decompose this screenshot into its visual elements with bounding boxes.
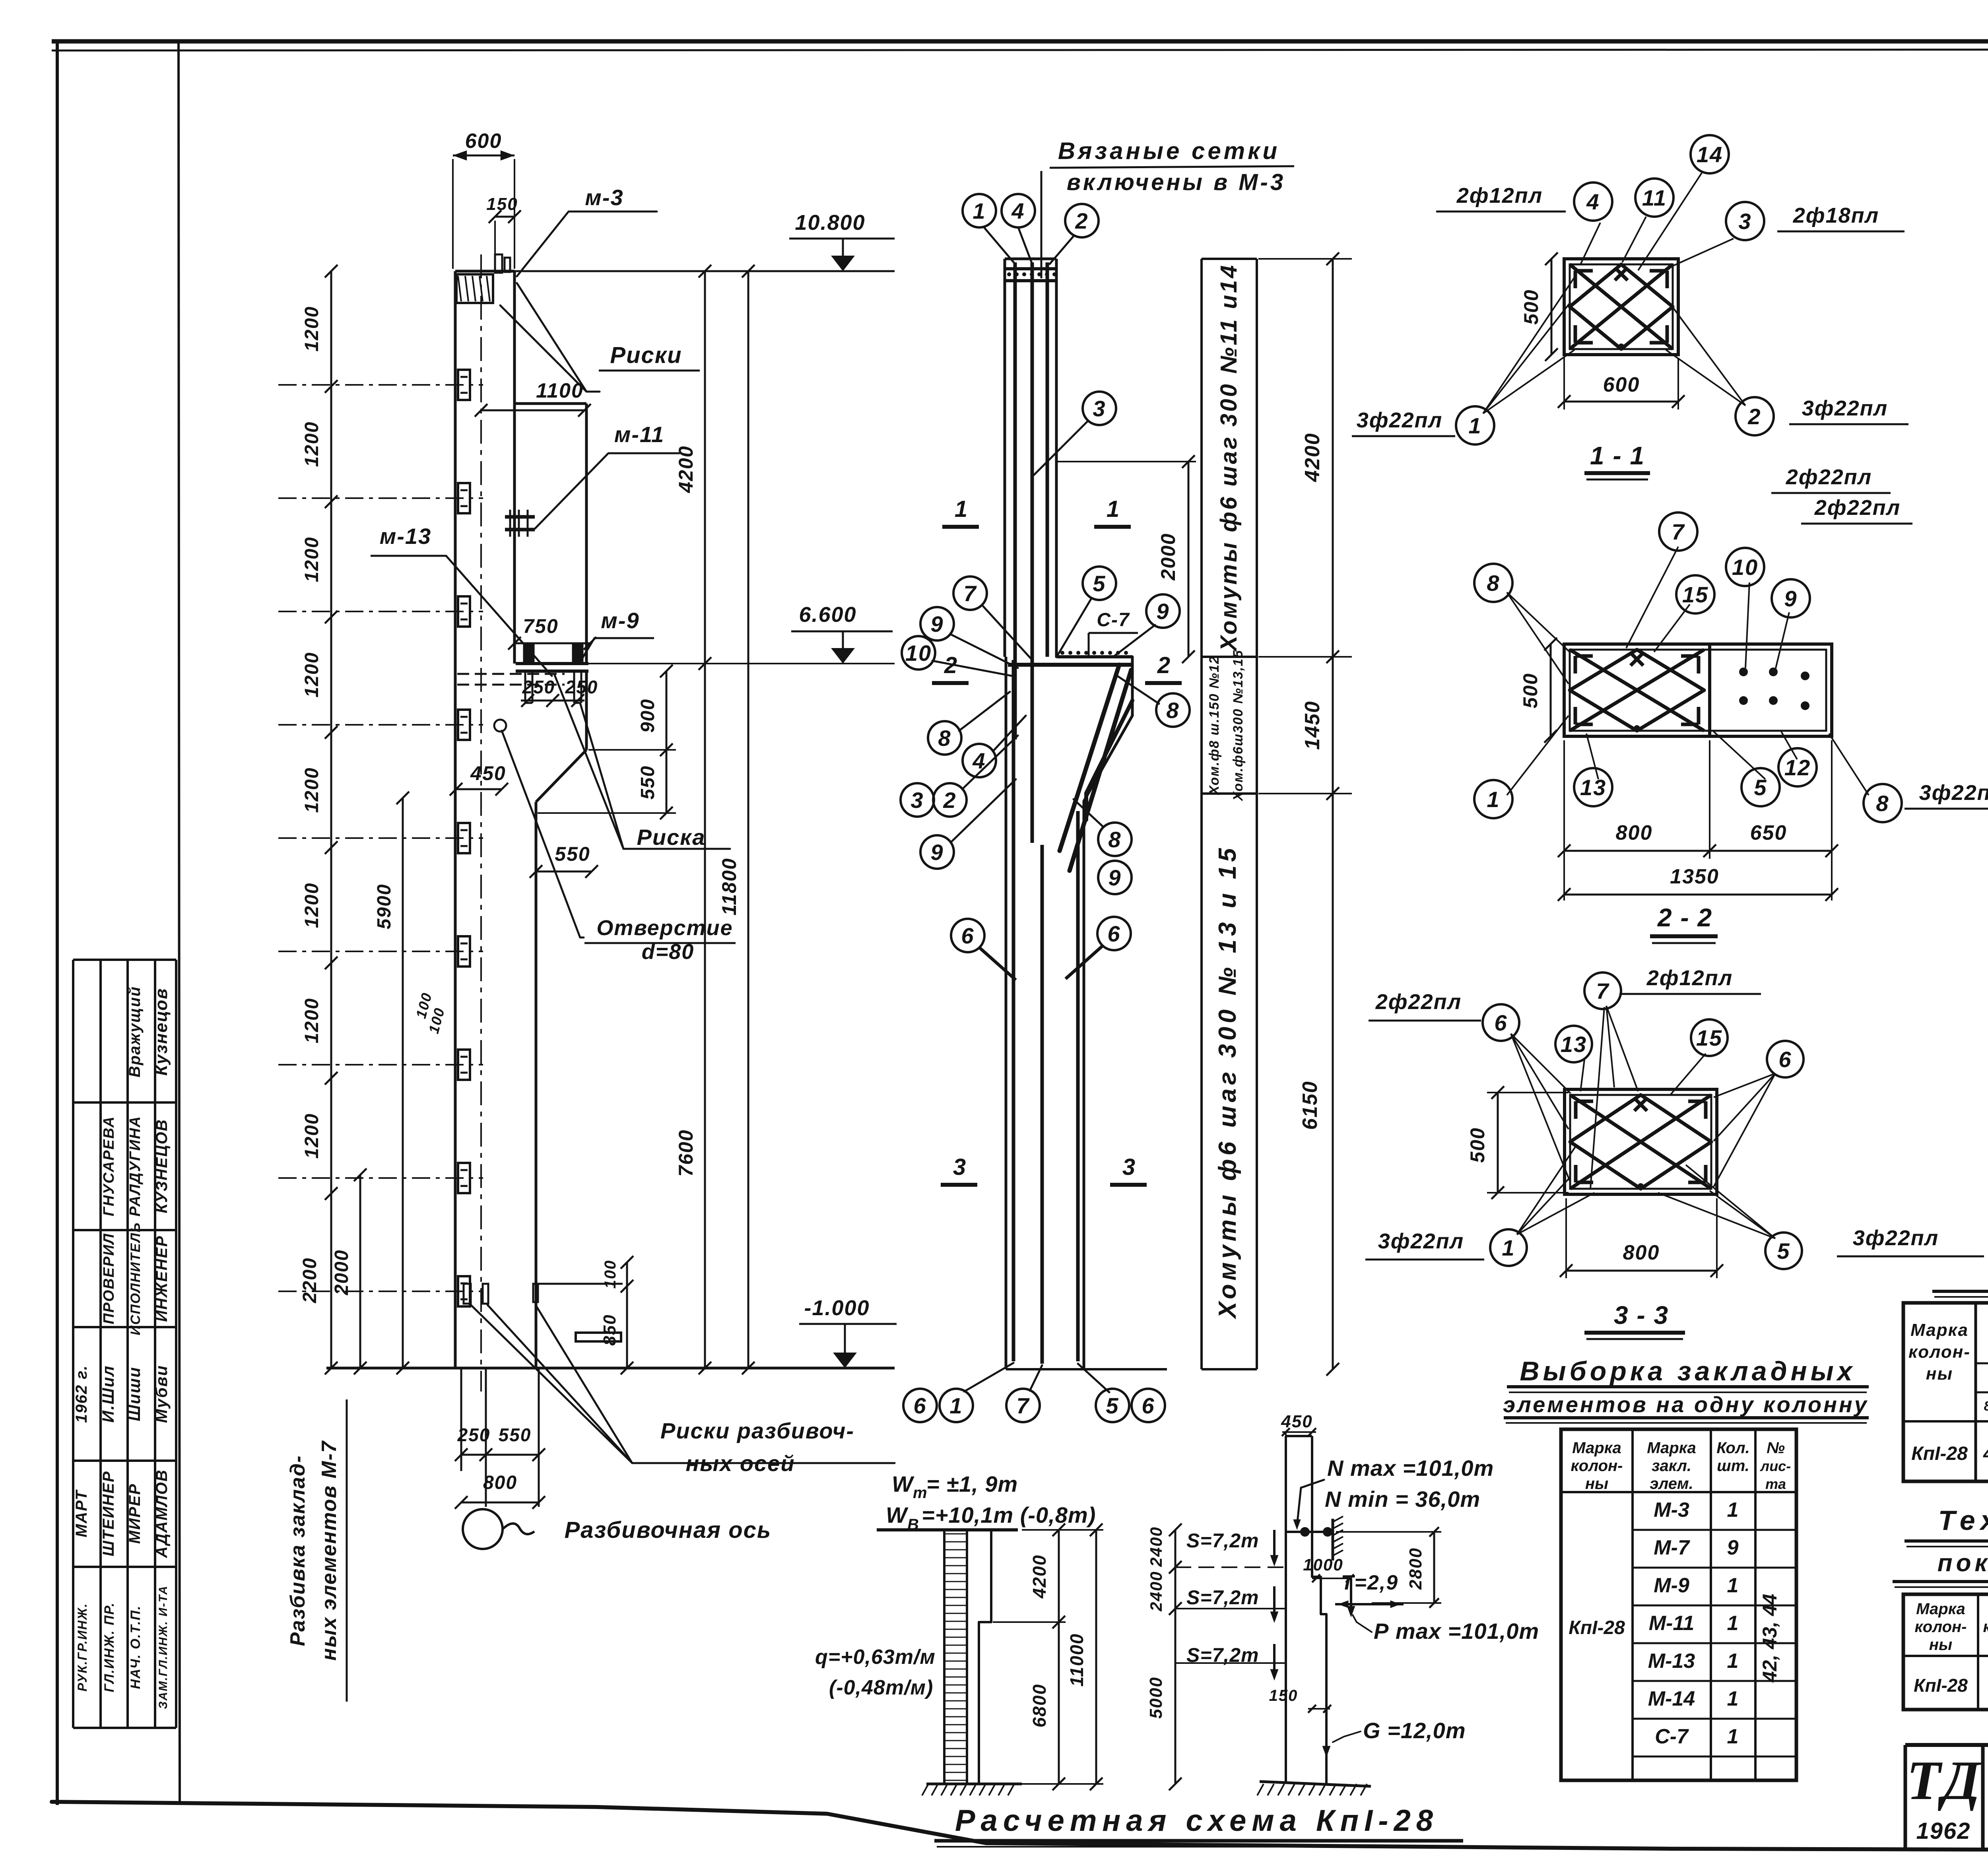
svg-text:Мубви: Мубви bbox=[152, 1365, 171, 1423]
svg-text:Кол.: Кол. bbox=[1716, 1439, 1750, 1457]
dim 2000 middle bbox=[1058, 461, 1196, 462]
razbivochnaya axis circle bbox=[463, 1509, 503, 1549]
svg-text:Риски разбивоч-: Риски разбивоч- bbox=[660, 1418, 854, 1443]
section 3-3 dim 500 bbox=[1497, 1093, 1499, 1193]
dimension 5900 bbox=[402, 798, 404, 1368]
svg-text:№: № bbox=[1767, 1439, 1785, 1457]
svg-text:1200: 1200 bbox=[301, 421, 322, 467]
svg-text:6: 6 bbox=[913, 1393, 926, 1418]
svg-text:2ф12пл: 2ф12пл bbox=[1456, 184, 1543, 208]
svg-text:М-9: М-9 bbox=[1654, 1574, 1689, 1597]
embeds rows bbox=[1633, 1529, 1796, 1531]
svg-text:7600: 7600 bbox=[675, 1129, 697, 1176]
section 3-3 callouts bbox=[1483, 1004, 1519, 1041]
svg-text:2000: 2000 bbox=[1157, 533, 1179, 580]
svg-text:N min = 36,0т: N min = 36,0т bbox=[1325, 1487, 1480, 1512]
svg-text:800: 800 bbox=[1623, 1241, 1660, 1264]
svg-text:1100: 1100 bbox=[536, 379, 584, 402]
svg-text:900: 900 bbox=[637, 699, 658, 733]
svg-text:1200: 1200 bbox=[301, 883, 322, 928]
svg-text:колон-: колон- bbox=[1571, 1457, 1623, 1475]
TD logo box bbox=[1904, 1745, 1907, 1849]
longitudinal bars upper bbox=[1013, 262, 1017, 739]
svg-text:Хомуты ф6 шаг 300 №11 и14: Хомуты ф6 шаг 300 №11 и14 bbox=[1216, 263, 1242, 652]
mid scheme ground bbox=[1260, 1782, 1371, 1786]
left scheme ground bottom bbox=[926, 1783, 1022, 1786]
svg-text:3: 3 bbox=[953, 1154, 967, 1180]
svg-text:7: 7 bbox=[1596, 978, 1609, 1003]
svg-text:РУК.ГР.ИНЖ.: РУК.ГР.ИНЖ. bbox=[75, 1603, 89, 1692]
section 3-3 dim 800 bbox=[1565, 1198, 1567, 1278]
svg-text:500: 500 bbox=[1519, 673, 1541, 708]
svg-text:4: 4 bbox=[1011, 198, 1025, 223]
svg-text:8: 8 bbox=[1876, 791, 1889, 816]
section 3-3 leaders bbox=[1511, 1034, 1571, 1093]
svg-text:550: 550 bbox=[637, 765, 658, 800]
corbel outline middle bbox=[1056, 657, 1132, 801]
svg-text:5: 5 bbox=[1106, 1393, 1119, 1418]
svg-text:N max =101,0т: N max =101,0т bbox=[1327, 1456, 1494, 1481]
section mark 2 left bbox=[932, 681, 969, 685]
svg-text:м-11: м-11 bbox=[614, 422, 664, 447]
steel table frame bbox=[1903, 1303, 1988, 1481]
svg-text:М-7: М-7 bbox=[1654, 1536, 1690, 1559]
svg-text:800: 800 bbox=[1616, 821, 1653, 844]
svg-text:S=7,2т: S=7,2т bbox=[1186, 1586, 1259, 1609]
steel table main verticals bbox=[1974, 1303, 1977, 1481]
corbel bolts bbox=[524, 644, 534, 664]
svg-text:1: 1 bbox=[1502, 1235, 1515, 1260]
svg-text:(-0,48т/м): (-0,48т/м) bbox=[829, 1676, 933, 1699]
svg-text:показатели на одну колонну: показатели на одну колонну bbox=[1938, 1549, 1988, 1577]
bottom stub verticals bbox=[460, 1368, 462, 1471]
svg-text:= ±1, 9т: = ±1, 9т bbox=[926, 1471, 1018, 1496]
svg-text:3: 3 bbox=[1122, 1154, 1136, 1180]
section mark 3 left bbox=[941, 1183, 977, 1187]
section 2-2 dim 500 bbox=[1550, 644, 1552, 736]
svg-text:1962 г.: 1962 г. bbox=[73, 1365, 90, 1423]
svg-text:2ф22пл: 2ф22пл bbox=[1786, 465, 1872, 489]
svg-text:колон-: колон- bbox=[1908, 1342, 1971, 1362]
svg-text:6.600: 6.600 bbox=[799, 603, 856, 627]
baseline -1.000 bbox=[326, 1367, 895, 1370]
svg-text:150: 150 bbox=[1269, 1687, 1298, 1704]
svg-text:1: 1 bbox=[1727, 1612, 1739, 1635]
section 1-1 callouts bbox=[1574, 182, 1612, 221]
svg-text:2ф12пл: 2ф12пл bbox=[1646, 966, 1733, 990]
svg-text:Риска: Риска bbox=[637, 825, 706, 850]
hole d=80 bbox=[494, 720, 506, 732]
svg-text:1000: 1000 bbox=[1303, 1555, 1343, 1574]
svg-text:8: 8 bbox=[938, 726, 951, 751]
callout 6 pair bbox=[951, 919, 984, 952]
svg-text:4200: 4200 bbox=[675, 445, 697, 493]
svg-text:8пл: 8пл bbox=[1984, 1399, 1988, 1414]
section 1-1 dim 600 bbox=[1563, 358, 1565, 410]
svg-text:750: 750 bbox=[523, 615, 558, 637]
svg-text:1: 1 bbox=[1727, 1725, 1739, 1748]
lower anchor plates bbox=[533, 1283, 623, 1285]
left scheme ground top line bbox=[877, 1528, 1018, 1531]
svg-text:5900: 5900 bbox=[374, 884, 395, 930]
svg-text:1350: 1350 bbox=[1670, 865, 1719, 888]
section mark 1 left bbox=[942, 525, 979, 529]
svg-text:11000: 11000 bbox=[1066, 1633, 1087, 1687]
svg-text:ных элементов М-7: ных элементов М-7 bbox=[318, 1440, 341, 1661]
stirrup zone bar bbox=[1200, 259, 1203, 1369]
svg-text:3ф22пл: 3ф22пл bbox=[1919, 781, 1988, 805]
svg-text:G =12,0т: G =12,0т bbox=[1363, 1718, 1466, 1743]
svg-text:Выборка закладных: Выборка закладных bbox=[1520, 1356, 1856, 1386]
svg-text:6: 6 bbox=[1107, 921, 1120, 946]
svg-text:т: т bbox=[913, 1484, 928, 1502]
svg-text:5: 5 bbox=[1093, 571, 1106, 596]
svg-text:1: 1 bbox=[973, 198, 986, 223]
section 1-1 box bbox=[1564, 259, 1678, 355]
svg-text:3: 3 bbox=[911, 788, 924, 813]
section mark 3 right bbox=[1110, 1183, 1147, 1187]
svg-text:1200: 1200 bbox=[301, 306, 322, 352]
svg-text:-1.000: -1.000 bbox=[804, 1296, 870, 1320]
callout 5 and C-7 bbox=[1083, 567, 1116, 600]
svg-text:ГНУСАРЕВА: ГНУСАРЕВА bbox=[101, 1116, 117, 1217]
svg-text:Марка: Марка bbox=[1910, 1320, 1969, 1340]
column right edge below corbel bbox=[585, 671, 588, 750]
svg-text:МИРЕР: МИРЕР bbox=[126, 1483, 144, 1544]
svg-text:6: 6 bbox=[1142, 1393, 1155, 1418]
svg-text:И.Шил: И.Шил bbox=[99, 1365, 117, 1423]
longitudinal bars lower bbox=[1012, 660, 1015, 1361]
section mark 1 right bbox=[1094, 525, 1131, 529]
svg-text:4200: 4200 bbox=[1029, 1555, 1050, 1599]
label Riska bbox=[555, 675, 623, 849]
svg-text:лис-: лис- bbox=[1760, 1458, 1791, 1474]
callout 9 right bbox=[1146, 594, 1180, 628]
svg-text:КпI-28: КпI-28 bbox=[1569, 1617, 1625, 1638]
support detail top bbox=[1332, 1519, 1334, 1560]
svg-text:2200: 2200 bbox=[299, 1258, 320, 1304]
callout 8 4 left bbox=[928, 721, 961, 755]
svg-text:Вязаные сетки: Вязаные сетки bbox=[1058, 138, 1280, 164]
svg-text:С-7: С-7 bbox=[1097, 609, 1130, 631]
P force bbox=[1350, 1578, 1352, 1613]
svg-text:2: 2 bbox=[1747, 404, 1761, 429]
svg-text:2ф18пл: 2ф18пл bbox=[1793, 204, 1879, 227]
sheet left border bbox=[56, 41, 59, 1805]
svg-text:колон-: колон- bbox=[1983, 1618, 1988, 1636]
svg-text:2400: 2400 bbox=[1147, 1526, 1165, 1567]
svg-text:6800: 6800 bbox=[1029, 1684, 1050, 1727]
svg-text:включены в М-3: включены в М-3 bbox=[1067, 169, 1285, 195]
inner frame line bbox=[179, 41, 180, 1805]
column axis line bbox=[480, 254, 482, 1392]
svg-text:1: 1 bbox=[1727, 1498, 1739, 1522]
svg-text:3: 3 bbox=[1738, 209, 1751, 234]
svg-text:850: 850 bbox=[600, 1314, 619, 1345]
dim 600 top bbox=[453, 155, 514, 157]
G force bbox=[1325, 1706, 1328, 1753]
svg-text:м-3: м-3 bbox=[585, 185, 623, 210]
svg-text:1200: 1200 bbox=[301, 767, 322, 813]
svg-text:Отверстие: Отверстие bbox=[596, 916, 733, 940]
steel table header internals bbox=[1976, 1362, 1988, 1364]
svg-text:2000: 2000 bbox=[331, 1250, 352, 1296]
svg-text:3ф22пл: 3ф22пл bbox=[1853, 1226, 1939, 1250]
leaders riski razbivochnykh osey bbox=[471, 1305, 632, 1463]
svg-text:шт.: шт. bbox=[1717, 1457, 1749, 1475]
callout cluster left bbox=[953, 576, 987, 610]
dimension 2000 bbox=[359, 1175, 361, 1368]
svg-text:5000: 5000 bbox=[1146, 1677, 1166, 1719]
svg-text:КпI-28: КпI-28 bbox=[1914, 1675, 1968, 1696]
svg-text:10: 10 bbox=[905, 640, 932, 666]
svg-text:ТД: ТД bbox=[1907, 1750, 1982, 1811]
svg-text:ны: ны bbox=[1929, 1636, 1952, 1654]
corbel plate M-9 bbox=[516, 662, 588, 665]
svg-text:2: 2 bbox=[1075, 208, 1088, 233]
svg-text:ИНЖЕНЕР: ИНЖЕНЕР bbox=[153, 1235, 171, 1322]
sheet top border bbox=[52, 39, 1988, 44]
svg-text:W: W bbox=[892, 1471, 914, 1496]
column outline right edge top bbox=[513, 271, 516, 404]
section 2-2 dots bbox=[1739, 668, 1748, 676]
svg-text:250: 250 bbox=[565, 677, 598, 697]
svg-text:РАЛДУГИНА: РАЛДУГИНА bbox=[127, 1116, 144, 1217]
svg-text:Марка: Марка bbox=[1916, 1600, 1965, 1618]
svg-text:q=+0,63т/м: q=+0,63т/м bbox=[815, 1646, 936, 1669]
middle column outline lower bbox=[1005, 657, 1008, 1369]
label Riski with leaders bbox=[500, 305, 600, 392]
svg-text:9: 9 bbox=[1784, 586, 1797, 611]
elevation dimension chain 1200s bbox=[330, 271, 332, 1368]
bent bars in corbel bbox=[1008, 663, 1131, 667]
sheet bottom border bbox=[52, 1802, 1988, 1852]
svg-text:Разбивочная ось: Разбивочная ось bbox=[565, 1517, 772, 1543]
callout 8 9 below corbel bbox=[1098, 823, 1132, 856]
svg-text:2400: 2400 bbox=[1147, 1571, 1165, 1611]
svg-text:10.800: 10.800 bbox=[795, 211, 865, 235]
column diagonal step bbox=[536, 750, 586, 802]
svg-text:Марка: Марка bbox=[1572, 1439, 1621, 1457]
svg-text:450: 450 bbox=[470, 762, 506, 784]
svg-text:8: 8 bbox=[1487, 571, 1500, 596]
title block top line bbox=[1905, 1743, 1988, 1747]
svg-text:3: 3 bbox=[1093, 396, 1106, 421]
svg-text:2: 2 bbox=[943, 788, 956, 813]
svg-text:9: 9 bbox=[1156, 599, 1169, 624]
svg-text:С-7: С-7 bbox=[1655, 1725, 1689, 1748]
svg-text:Шиши: Шиши bbox=[125, 1366, 144, 1421]
svg-text:3ф22пл: 3ф22пл bbox=[1378, 1229, 1464, 1253]
svg-text:S=7,2т: S=7,2т bbox=[1186, 1529, 1259, 1552]
svg-text:1: 1 bbox=[1468, 413, 1481, 438]
svg-text:5: 5 bbox=[1777, 1238, 1790, 1263]
svg-text:S=7,2т: S=7,2т bbox=[1186, 1644, 1259, 1666]
svg-text:12: 12 bbox=[1784, 755, 1811, 780]
svg-text:1: 1 bbox=[949, 1393, 963, 1418]
svg-text:600: 600 bbox=[465, 130, 502, 153]
svg-text:та: та bbox=[1765, 1476, 1786, 1492]
svg-text:М-14: М-14 bbox=[1648, 1687, 1695, 1710]
svg-text:ГЛ.ИНЖ. ПР.: ГЛ.ИНЖ. ПР. bbox=[102, 1602, 117, 1692]
svg-text:Расчетная схема КпI-28: Расчетная схема КпI-28 bbox=[955, 1804, 1439, 1838]
callout 3 2 left bbox=[901, 783, 934, 817]
svg-text:М-11: М-11 bbox=[1649, 1612, 1695, 1635]
svg-text:11: 11 bbox=[1642, 185, 1667, 210]
svg-text:1 - 1: 1 - 1 bbox=[1590, 441, 1645, 470]
2800 dim bbox=[1433, 1532, 1435, 1603]
section 1-1 leaders bbox=[1483, 350, 1574, 413]
svg-text:Хом.ф8 ш.150 №12: Хом.ф8 ш.150 №12 bbox=[1207, 656, 1222, 796]
top assembly M-3 bbox=[456, 274, 493, 303]
svg-text:1: 1 bbox=[1487, 787, 1500, 812]
top level line 10.800 bbox=[514, 270, 895, 272]
svg-text:9: 9 bbox=[930, 611, 944, 637]
corbel mesh teeth bbox=[1060, 651, 1064, 655]
svg-text:КпI-28: КпI-28 bbox=[1911, 1443, 1968, 1464]
svg-text:Р max =101,0т: Р max =101,0т bbox=[1374, 1619, 1539, 1644]
svg-text:9: 9 bbox=[1727, 1536, 1739, 1559]
middle column outline upper bbox=[1004, 259, 1006, 657]
left scheme dims 4200 6800 bbox=[1058, 1530, 1060, 1784]
svg-text:Марка: Марка bbox=[1647, 1439, 1696, 1457]
svg-text:1200: 1200 bbox=[301, 537, 322, 582]
svg-text:250: 250 bbox=[522, 677, 555, 697]
svg-text:2: 2 bbox=[1157, 652, 1171, 678]
callout 8 right bbox=[1156, 693, 1190, 727]
embeds table frame bbox=[1561, 1429, 1796, 1780]
section 2-2 box bbox=[1564, 644, 1832, 736]
svg-text:2ф22пл: 2ф22пл bbox=[1375, 990, 1462, 1014]
svg-text:закл.: закл. bbox=[1652, 1457, 1691, 1475]
callout circles top bbox=[984, 227, 1015, 264]
dim 150 bbox=[495, 216, 514, 218]
svg-text:элементов на одну колонну: элементов на одну колонну bbox=[1503, 1392, 1869, 1417]
svg-text:ных осей: ных осей bbox=[685, 1451, 795, 1476]
svg-text:ПРОВЕРИЛ: ПРОВЕРИЛ bbox=[101, 1233, 117, 1324]
svg-text:М-3: М-3 bbox=[1654, 1498, 1689, 1522]
mid scheme dim chain 2400 2400 5000 bbox=[1175, 1530, 1176, 1784]
svg-text:13: 13 bbox=[1561, 1032, 1587, 1057]
left scheme column profile bbox=[979, 1530, 991, 1784]
svg-text:1200: 1200 bbox=[301, 652, 322, 698]
section mark 2 right bbox=[1145, 681, 1182, 685]
svg-text:КУЗНЕЦОВ: КУЗНЕЦОВ bbox=[153, 1119, 171, 1213]
svg-text:м-9: м-9 bbox=[601, 608, 639, 633]
svg-text:8: 8 bbox=[1166, 698, 1179, 723]
svg-text:14: 14 bbox=[1697, 142, 1723, 167]
column step 1100 bbox=[514, 402, 586, 405]
svg-text:М-13: М-13 bbox=[1648, 1650, 1695, 1673]
svg-text:1: 1 bbox=[1727, 1687, 1739, 1710]
dim line 4200/7600 bbox=[704, 271, 706, 1368]
svg-text:150: 150 bbox=[486, 194, 518, 214]
svg-text:7: 7 bbox=[963, 581, 977, 606]
svg-text:ЗАМ.ГЛ.ИНЖ. И-ТА: ЗАМ.ГЛ.ИНЖ. И-ТА bbox=[157, 1585, 170, 1709]
left scheme hatched wall bbox=[944, 1530, 967, 1784]
svg-text:колон-: колон- bbox=[1915, 1618, 1967, 1636]
callout 9 left lower bbox=[920, 835, 954, 869]
svg-text:13: 13 bbox=[1580, 775, 1606, 800]
svg-text:Хомуты ф6 шаг 300 № 13 и 15: Хомуты ф6 шаг 300 № 13 и 15 bbox=[1214, 844, 1241, 1319]
svg-text:4,7: 4,7 bbox=[1983, 1443, 1988, 1464]
column lower right edge bbox=[535, 802, 538, 1368]
bottom callouts bbox=[964, 1363, 1013, 1392]
svg-text:Разбивка заклад-: Разбивка заклад- bbox=[286, 1455, 309, 1646]
svg-text:650: 650 bbox=[1750, 821, 1787, 844]
svg-text:3ф22пл: 3ф22пл bbox=[1357, 408, 1442, 432]
svg-text:2800: 2800 bbox=[1406, 1547, 1425, 1590]
svg-text:ны: ны bbox=[1926, 1364, 1953, 1384]
svg-text:Вражущий: Вражущий bbox=[126, 986, 144, 1077]
svg-text:6: 6 bbox=[1494, 1010, 1507, 1035]
svg-text:=+10,1т (-0,8т): =+10,1т (-0,8т) bbox=[922, 1502, 1096, 1527]
dim 900/550 right of corbel bbox=[666, 671, 668, 813]
svg-text:1200: 1200 bbox=[301, 998, 322, 1044]
embedded plates M-7 bbox=[458, 370, 470, 400]
svg-text:6150: 6150 bbox=[1299, 1081, 1322, 1130]
mid scheme column bbox=[1285, 1436, 1287, 1784]
svg-text:42, 43, 44: 42, 43, 44 bbox=[1759, 1594, 1781, 1683]
svg-text:2ф22пл: 2ф22пл bbox=[1814, 496, 1901, 520]
svg-text:15: 15 bbox=[1682, 582, 1708, 607]
svg-text:1: 1 bbox=[1727, 1574, 1739, 1597]
svg-text:6: 6 bbox=[961, 923, 974, 948]
left scheme dim 11000 bbox=[1095, 1530, 1097, 1784]
svg-text:МАРТ: МАРТ bbox=[73, 1489, 90, 1537]
svg-text:600: 600 bbox=[1603, 373, 1640, 396]
svg-text:450: 450 bbox=[1281, 1412, 1312, 1431]
svg-text:100: 100 bbox=[602, 1260, 619, 1289]
column right edge mid bbox=[513, 404, 516, 664]
svg-text:5: 5 bbox=[1754, 775, 1767, 800]
svg-text:250: 250 bbox=[457, 1425, 491, 1445]
svg-text:Хом.ф6ш300 №13,15: Хом.ф6ш300 №13,15 bbox=[1231, 650, 1246, 802]
callout 3 bbox=[1034, 421, 1088, 475]
svg-text:15: 15 bbox=[1696, 1025, 1722, 1050]
svg-text:ИСПОЛНИТЕЛЬ: ИСПОЛНИТЕЛЬ bbox=[128, 1222, 143, 1335]
svg-text:11800: 11800 bbox=[718, 858, 740, 915]
tep table frame bbox=[1903, 1594, 1988, 1710]
section 3-3 box bbox=[1565, 1089, 1717, 1194]
svg-text:Риски: Риски bbox=[610, 342, 682, 368]
svg-text:3ф22пл: 3ф22пл bbox=[1802, 396, 1888, 420]
dim line 11800 bbox=[747, 271, 749, 1368]
svg-text:9: 9 bbox=[930, 840, 944, 865]
svg-text:1450: 1450 bbox=[1301, 701, 1324, 750]
svg-text:Т=2,9: Т=2,9 bbox=[1341, 1571, 1398, 1594]
svg-text:4: 4 bbox=[1586, 189, 1600, 214]
label m-3 bbox=[517, 212, 657, 276]
svg-text:Кузнецов: Кузнецов bbox=[151, 988, 171, 1075]
svg-text:800: 800 bbox=[483, 1472, 517, 1493]
svg-text:9: 9 bbox=[1108, 865, 1121, 890]
svg-text:АДАМЛОВ: АДАМЛОВ bbox=[153, 1469, 171, 1558]
mid scheme floor lines bbox=[1175, 1566, 1286, 1568]
section 2-2 leaders bbox=[1507, 592, 1570, 652]
svg-text:7: 7 bbox=[1672, 519, 1685, 544]
svg-text:6: 6 bbox=[1778, 1047, 1792, 1072]
svg-text:1962: 1962 bbox=[1916, 1818, 1971, 1844]
svg-text:10: 10 bbox=[1732, 555, 1758, 580]
svg-text:4200: 4200 bbox=[1301, 433, 1324, 482]
svg-text:8: 8 bbox=[1108, 827, 1121, 852]
svg-text:НАЧ. О.Т.П.: НАЧ. О.Т.П. bbox=[128, 1605, 143, 1689]
stamp table grid bbox=[72, 960, 74, 1728]
section 2-2 callouts bbox=[1474, 564, 1512, 602]
svg-text:500: 500 bbox=[1466, 1127, 1489, 1163]
top mesh bbox=[1006, 267, 1056, 270]
